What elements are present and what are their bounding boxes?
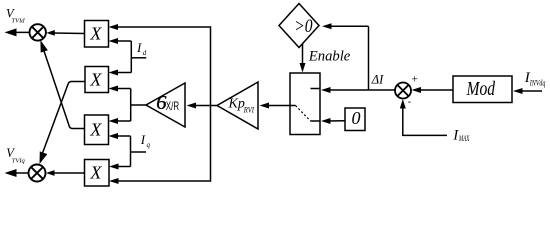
wire summing junction output to switch (Delta-I) bbox=[321, 87, 395, 93]
multiplier junction M1 (top-left) bbox=[30, 24, 46, 40]
label I_MAX bbox=[452, 127, 470, 143]
multiplier junction M2 (bottom-left) bbox=[29, 165, 46, 182]
svg-text:INVdq: INVdq bbox=[529, 78, 545, 87]
svg-text:RVI: RVI bbox=[243, 106, 254, 115]
wire bottom feedback into X4 lower input bbox=[109, 106, 211, 185]
gain Kp_RVI triangle bbox=[217, 82, 258, 129]
summing junction S1 bbox=[395, 83, 411, 99]
gain sigma X/R triangle bbox=[146, 83, 185, 127]
svg-text:0: 0 bbox=[352, 108, 361, 128]
label I_d bbox=[136, 40, 147, 57]
constant block 0 bbox=[345, 108, 365, 131]
wire switch output to Kp bbox=[260, 103, 291, 109]
svg-text:q: q bbox=[147, 141, 151, 149]
wire Delta-I branch up to diamond bbox=[322, 23, 369, 90]
label V_TVId bbox=[6, 7, 25, 25]
label Enable bbox=[308, 49, 351, 65]
block Mod bbox=[453, 76, 512, 103]
svg-text:ΔI: ΔI bbox=[371, 73, 384, 87]
svg-text:X: X bbox=[89, 69, 102, 89]
svg-text:MAX: MAX bbox=[458, 134, 470, 143]
wire Kp output to sigma (with junction to vertical distribution) bbox=[187, 103, 218, 109]
wire V_TVIq output arrow bbox=[5, 169, 29, 177]
wire Mod output to summing junction bbox=[412, 87, 454, 93]
svg-text:I: I bbox=[136, 40, 142, 55]
svg-text:-: - bbox=[408, 97, 411, 108]
comparator diamond >0 bbox=[279, 4, 319, 48]
svg-text:TVIq: TVIq bbox=[12, 158, 26, 165]
svg-text:TVId: TVId bbox=[12, 17, 26, 24]
wire X2 output diagonal to M2 bbox=[40, 82, 85, 165]
svg-text:Enable: Enable bbox=[308, 49, 351, 65]
wire I_q distribution bbox=[109, 133, 147, 170]
label Delta-I bbox=[371, 73, 384, 87]
svg-text:Kp: Kp bbox=[228, 97, 245, 112]
wire I_MAX into summing junction minus input bbox=[400, 99, 447, 135]
multiplier block X3 bbox=[85, 115, 109, 145]
svg-text:>0: >0 bbox=[294, 17, 313, 37]
wire 0 to switch lower input bbox=[321, 118, 345, 124]
wire X3 output diagonal to M1 bbox=[40, 40, 84, 129]
svg-text:I: I bbox=[140, 132, 146, 147]
svg-text:+: + bbox=[412, 74, 419, 86]
svg-text:d: d bbox=[143, 49, 147, 57]
wire I_INVdq input into Mod bbox=[513, 88, 542, 94]
wire sigma output distribution to X2 and X3 bbox=[109, 86, 147, 125]
svg-text:X: X bbox=[89, 120, 102, 140]
svg-text:X: X bbox=[89, 163, 102, 183]
label I_INVdq bbox=[524, 70, 546, 87]
multiplier block X1 bbox=[85, 21, 109, 48]
multiplier block X2 bbox=[85, 67, 109, 93]
svg-text:X: X bbox=[89, 24, 102, 44]
wire Enable from diamond into switch top bbox=[300, 44, 306, 73]
label V_TVIq bbox=[6, 146, 25, 165]
label I_q bbox=[140, 132, 151, 149]
wire I_d distribution bbox=[109, 38, 147, 76]
svg-text:Mod: Mod bbox=[466, 78, 496, 100]
wire X1 output to M1 bbox=[46, 30, 84, 36]
wire X4 output to M2 bbox=[46, 170, 85, 176]
wire top feedback into X1 upper input bbox=[109, 24, 211, 106]
switch block bbox=[290, 73, 320, 135]
multiplier block X4 bbox=[85, 160, 110, 187]
wire V_TVId output arrow bbox=[5, 28, 30, 36]
svg-text:X/R: X/R bbox=[166, 99, 180, 113]
